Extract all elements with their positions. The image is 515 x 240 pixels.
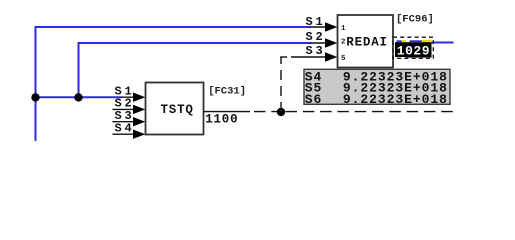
TSTQ input S4 wire stub <box>113 133 138 135</box>
value box highlight blue dash bottom <box>405 56 432 58</box>
svg-text:1100: 1100 <box>205 112 238 126</box>
TSTQ input S3 arrow <box>133 117 145 126</box>
wire blue net horizontal to TSTQ S1 <box>36 96 122 98</box>
wire dashed from TSTQ output to junction <box>254 111 281 113</box>
wire to REDAI S3 <box>291 56 330 58</box>
junction node at x35 <box>31 93 39 101</box>
REDAI input S1 wire <box>310 26 330 28</box>
wire blue net horizontal to REDAI S2 <box>78 42 312 44</box>
value table S4 S5 S6 <box>304 69 450 104</box>
value box highlight yellow dash top right <box>422 40 432 43</box>
REDAI input S2 wire <box>310 42 330 44</box>
svg-text:5: 5 <box>341 55 346 63</box>
svg-text:S4: S4 <box>115 121 135 135</box>
wire blue stub right of value box <box>432 42 454 44</box>
value box 1029 <box>395 42 432 57</box>
REDAI input S2 arrow <box>325 38 337 47</box>
TSTQ input S4 arrow <box>133 130 145 139</box>
svg-text:S6: S6 <box>305 92 323 107</box>
wire blue net vertical branch <box>78 42 80 98</box>
svg-text:REDAI: REDAI <box>346 36 388 50</box>
REDAI input S1 arrow <box>325 22 337 31</box>
value box highlight yellow dash bottom left <box>396 55 401 57</box>
TSTQ input S2 wire stub <box>113 108 138 110</box>
REDAI input S3 arrow <box>325 52 337 61</box>
TSTQ output wire solid <box>204 111 251 113</box>
svg-text:9.22323E+018: 9.22323E+018 <box>343 92 448 107</box>
selection marquee dashed <box>393 37 433 58</box>
svg-text:1029: 1029 <box>397 44 430 59</box>
TSTQ input S1 arrow <box>133 93 145 102</box>
value box highlight blue dash top left <box>397 40 402 42</box>
svg-text:[FC96]: [FC96] <box>396 14 434 26</box>
TSTQ input S3 wire stub <box>113 121 138 123</box>
svg-text:TSTQ: TSTQ <box>161 103 194 117</box>
svg-text:1: 1 <box>341 25 346 33</box>
TSTQ input S2 arrow <box>133 105 145 114</box>
wire dashed continuation right <box>286 111 456 113</box>
wire blue net vertical left <box>35 26 37 141</box>
wire blue net horizontal to REDAI S1 <box>35 26 312 28</box>
TSTQ input S1 wire stub <box>121 96 137 98</box>
function block U2 TSTQ <box>146 83 204 135</box>
value box highlight blue dash top mid <box>410 40 422 42</box>
svg-text:[FC31]: [FC31] <box>208 85 246 97</box>
value box highlight yellow dash top left <box>402 40 406 42</box>
wire dashed corner horizontal <box>280 56 287 58</box>
svg-text:S2: S2 <box>306 30 326 44</box>
function block U1 REDAI <box>338 15 394 68</box>
svg-text:S3: S3 <box>306 44 326 58</box>
wire dashed vertical up to REDAI S3 <box>280 57 282 113</box>
junction node dashed net <box>277 108 285 116</box>
svg-text:2: 2 <box>341 39 346 47</box>
junction node at x78 <box>74 93 82 101</box>
